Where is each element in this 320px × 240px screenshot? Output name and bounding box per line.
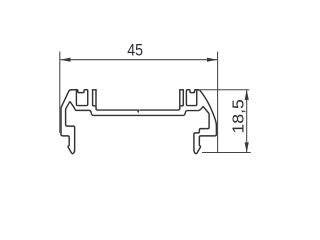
svg-text:18,5: 18,5: [230, 99, 247, 134]
wire: right block wall to web top: [140, 90, 179, 110]
wire: profile outer wall left with chamfer: [61, 90, 77, 135]
node C: center V marking notch: [137, 110, 140, 114]
wire: extension line left of dim 45: [59, 52, 61, 134]
wire: right block cap: [180, 89, 184, 91]
wire: right block jog: [181, 90, 183, 106]
wire: left block cap: [93, 89, 96, 91]
wire: extension line right of dim 45: [217, 52, 219, 154]
node F: arrow top of dim 18,5: [245, 90, 249, 100]
wire: profile outer right side with chamfer, foot and inner steps: [139, 90, 216, 154]
node E: arrow right of dim 45: [207, 58, 217, 62]
node G: arrow bottom of dim 18,5: [245, 142, 249, 152]
svg-text:45: 45: [127, 41, 143, 59]
wire: dimension line 45: [60, 59, 217, 61]
node A: left screw channel tower: [76, 90, 87, 106]
wire: dimension line 18,5: [246, 90, 248, 153]
wire: left block wall to web top: [96, 90, 137, 110]
wire: top extension line of dim 18,5: [200, 89, 249, 91]
wire: profile inner wall left to web bottom: [66, 102, 139, 126]
wire: bottom extension line of dim 18,5: [202, 152, 251, 154]
wire: profile bottom edge and left foot: [61, 126, 75, 154]
node B: right screw channel tower: [186, 90, 196, 106]
node D: arrow left of dim 45: [60, 58, 70, 62]
wire: left block jog: [93, 90, 95, 106]
